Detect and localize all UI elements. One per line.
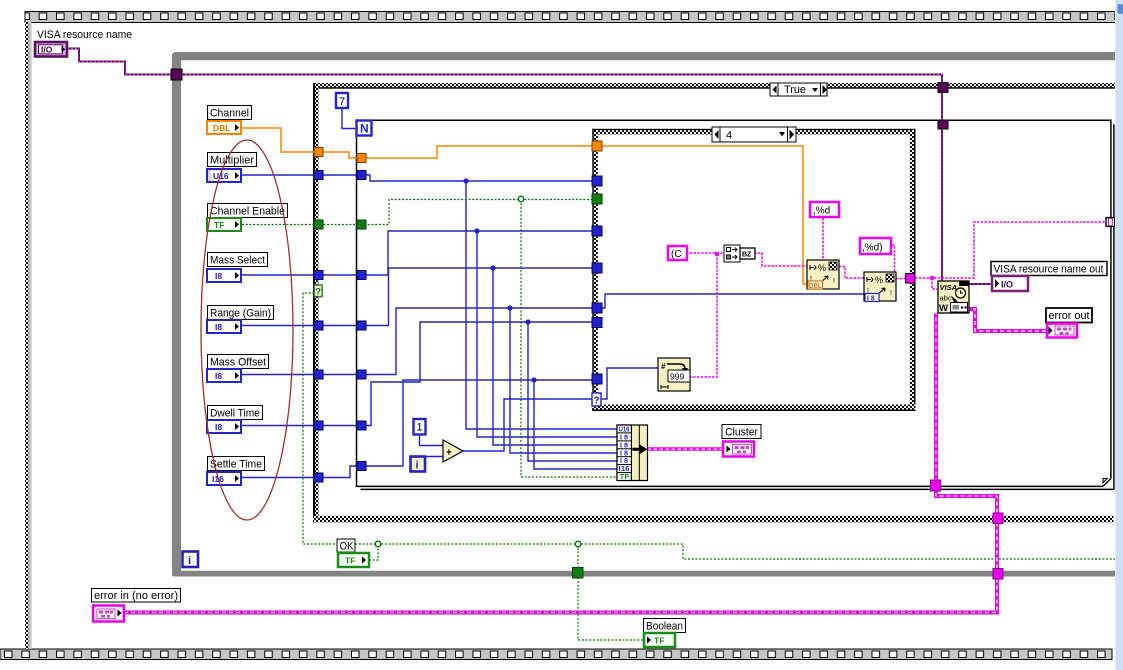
svg-text:?: ?: [315, 287, 321, 298]
svg-text:7: 7: [339, 96, 345, 108]
svg-text:TF: TF: [620, 474, 631, 481]
svg-text:I 8: I 8: [620, 450, 628, 457]
svg-text:Dwell Time: Dwell Time: [210, 408, 260, 420]
svg-text:999: 999: [670, 372, 684, 382]
svg-text:TF: TF: [345, 556, 355, 566]
svg-text:Mass Offset: Mass Offset: [210, 357, 266, 369]
svg-text:VISA: VISA: [940, 283, 958, 292]
svg-text:I/O: I/O: [1001, 280, 1013, 290]
svg-text:I8: I8: [215, 371, 222, 381]
svg-text:+: +: [446, 448, 452, 459]
svg-text:4: 4: [726, 130, 732, 142]
svg-text:Multiplier: Multiplier: [210, 155, 254, 167]
svg-text:1: 1: [417, 422, 423, 434]
svg-text:I8: I8: [215, 322, 222, 332]
svg-text:BZ: BZ: [742, 252, 752, 259]
svg-text:OK: OK: [340, 541, 355, 553]
svg-text:TF: TF: [214, 220, 224, 230]
svg-text:I8: I8: [215, 271, 222, 281]
svg-text:Channel: Channel: [210, 108, 249, 120]
svg-text:TF: TF: [654, 636, 664, 646]
svg-text:(C: (C: [671, 249, 682, 260]
svg-text:I16: I16: [619, 466, 630, 473]
svg-text:error out: error out: [1049, 310, 1090, 322]
svg-text:i: i: [188, 555, 191, 567]
svg-text:I/O: I/O: [41, 45, 53, 55]
svg-text:W: W: [939, 303, 948, 314]
svg-text:Mass Select: Mass Select: [210, 255, 265, 267]
svg-text:VISA resource name: VISA resource name: [37, 29, 132, 41]
svg-text:I8: I8: [215, 422, 222, 432]
svg-text:i: i: [416, 460, 419, 472]
svg-text:[]: []: [1107, 219, 1114, 226]
svg-text:#: #: [661, 362, 666, 371]
svg-text:I 8: I 8: [620, 435, 628, 442]
svg-text:VISA resource name out: VISA resource name out: [994, 264, 1104, 276]
svg-text:Boolean: Boolean: [646, 621, 683, 633]
svg-text:I 8: I 8: [867, 295, 875, 302]
svg-text:%: %: [875, 275, 883, 285]
svg-text:!: !: [890, 290, 892, 297]
svg-text:Cluster: Cluster: [725, 427, 758, 439]
svg-text:I 8: I 8: [620, 443, 628, 450]
svg-text:Settle Time: Settle Time: [210, 459, 262, 471]
svg-text:!: !: [833, 278, 835, 285]
svg-text:%: %: [818, 263, 826, 273]
svg-text:,%d): ,%d): [862, 243, 883, 254]
svg-text:DBL: DBL: [809, 283, 823, 290]
svg-text:N: N: [360, 122, 369, 136]
svg-text:DBL: DBL: [213, 123, 230, 133]
svg-text:Range (Gain): Range (Gain): [210, 308, 271, 320]
svg-text:Channel Enable: Channel Enable: [210, 206, 285, 218]
svg-text:?: ?: [594, 396, 600, 407]
svg-text:error in (no error): error in (no error): [94, 590, 178, 602]
svg-text:True: True: [784, 84, 806, 96]
svg-text:U16: U16: [619, 427, 630, 434]
svg-text:abc: abc: [940, 294, 952, 303]
svg-text:,%d: ,%d: [813, 206, 830, 217]
svg-text:I 8: I 8: [620, 458, 628, 465]
